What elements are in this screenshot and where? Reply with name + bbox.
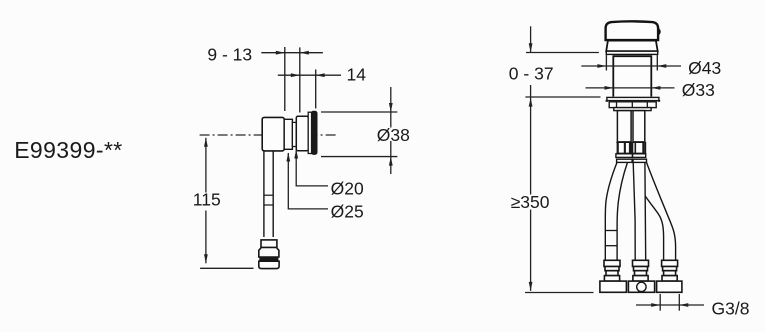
valve flange dark disc [311, 111, 317, 154]
right tube [633, 111, 645, 142]
dim 115 arrow up-pointing [204, 138, 208, 147]
left band 2 [617, 159, 633, 162]
valve flange white ring [308, 112, 312, 153]
connector dark band [259, 257, 278, 261]
right hose outer wall [647, 163, 676, 261]
right connector stack [657, 260, 682, 292]
rib bars [617, 142, 647, 154]
middle connector stack [628, 260, 654, 292]
ext line base plate [525, 96, 600, 98]
dim vertical lower segment [530, 210, 532, 291]
dim D20 leader [296, 150, 328, 186]
svg-text:14: 14 [347, 65, 367, 85]
dim 350 arrow down-pointing [529, 282, 533, 291]
base plate tick right [658, 100, 660, 102]
faucet skirt [606, 41, 658, 52]
connector bottom [259, 261, 279, 268]
centerline left view [200, 134, 337, 136]
hose left view wall right [272, 151, 274, 237]
ext line skirt [526, 52, 599, 54]
valve cylinder [296, 116, 308, 150]
dim 350 arrow up-pointing [529, 98, 533, 107]
dim D25 leader [288, 153, 328, 209]
dim D33 arrow left-pointing [651, 86, 660, 90]
dim 14 line left [278, 74, 341, 76]
svg-text:Ø25: Ø25 [331, 201, 364, 221]
dim D38 line lower [390, 141, 392, 174]
dim 9-13 line left [261, 52, 323, 54]
dim D38 ext top [321, 111, 397, 113]
hose joint line lower [264, 204, 273, 206]
left connector stack [600, 260, 627, 292]
hex nut division 2 [631, 102, 633, 108]
connector top collar [261, 240, 277, 248]
dim G38 arrow left-pointing [679, 303, 688, 307]
dim 115 line lower [205, 211, 207, 264]
dim D43 line left [581, 65, 681, 67]
valve section 2 [284, 119, 292, 149]
hose joint line upper [264, 194, 273, 196]
left hose crimp line lower [605, 245, 617, 247]
dim G38 ext right [678, 294, 680, 311]
middle hose left wall [633, 163, 635, 261]
right band 1 [633, 154, 646, 158]
svg-text:115: 115 [193, 190, 221, 210]
svg-text:Ø43: Ø43 [688, 58, 721, 78]
dim G38 ext left [659, 294, 661, 311]
faucet sub plate [614, 108, 651, 111]
dim vertical mid segment [530, 85, 532, 195]
D43 tick left [605, 55, 607, 71]
right band 2 [633, 159, 647, 162]
dim 115 arrow down-pointing [204, 254, 208, 263]
faucet skirt rim [606, 51, 657, 54]
svg-text:≥350: ≥350 [511, 192, 550, 212]
extension line 2 [299, 47, 301, 112]
rib bottom edges [616, 152, 645, 154]
dim G38 arrow right-pointing [651, 303, 660, 307]
faucet cap nub [658, 29, 659, 35]
dim 9-13 arrow right-pointing [276, 51, 285, 55]
valve main body [262, 117, 284, 150]
dim 115 ext bottom [200, 267, 253, 269]
svg-text:Ø20: Ø20 [331, 178, 364, 198]
svg-text:Ø33: Ø33 [682, 80, 715, 100]
faucet base plate [607, 97, 659, 100]
left tube [617, 111, 631, 142]
dim 14 arrow right-pointing [291, 73, 300, 77]
dim 115 line upper [205, 138, 207, 193]
dim D38 arrow down-pointing [389, 103, 393, 112]
dim 14 arrow left-pointing [316, 73, 325, 77]
ext line bottom [525, 292, 594, 294]
valve neck [292, 122, 296, 146]
rib section background [616, 142, 645, 154]
faucet cap [606, 21, 659, 40]
svg-text:9 - 13: 9 - 13 [207, 45, 252, 65]
base plate tick left [606, 100, 608, 102]
dim 0-37 line top [530, 26, 532, 52]
dim D25 arrow up-pointing [286, 153, 290, 162]
D43 tick right [656, 55, 658, 71]
dim D38 arrow up-pointing [389, 157, 393, 166]
extension line 3 [315, 70, 317, 109]
hex nut division 1 [616, 102, 618, 108]
dim D38 ext bottom [321, 156, 397, 158]
extension line 1 [284, 47, 286, 111]
left hose crimp line upper [605, 230, 617, 232]
dim D43 arrow right-pointing [597, 64, 606, 68]
faucet hex nut [609, 102, 656, 108]
svg-text:E99399-**: E99399-** [14, 137, 122, 163]
middle hose right wall [644, 163, 647, 261]
faucet body [613, 56, 651, 96]
dim 0-37 arrow down-pointing [529, 43, 533, 52]
left band 1 [616, 154, 633, 158]
dim D33 line left [586, 87, 675, 89]
svg-text:0 - 37: 0 - 37 [509, 64, 554, 84]
dim D20 arrow up-pointing [294, 150, 298, 159]
hose left view wall left [263, 151, 265, 237]
dim 9-13 arrow left-pointing [300, 51, 309, 55]
left hose outer wall [605, 163, 617, 261]
hex nut division 3 [646, 102, 648, 108]
right hose inner wall [645, 196, 663, 260]
middle connector circle [637, 282, 646, 291]
dim D33 arrow right-pointing [605, 86, 614, 90]
dim D43 arrow left-pointing [657, 64, 666, 68]
svg-text:G3/8: G3/8 [712, 298, 750, 318]
svg-text:Ø38: Ø38 [377, 125, 410, 145]
left hose inner wall [617, 163, 627, 261]
connector shoulder [259, 248, 279, 258]
dim D38 line upper [390, 87, 392, 128]
rib top edges [616, 141, 645, 143]
dim G38 line left [636, 304, 704, 306]
